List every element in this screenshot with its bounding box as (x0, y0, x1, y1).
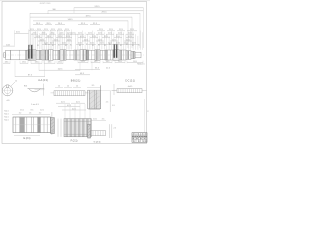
svg-text:18.5: 18.5 (106, 61, 110, 63)
top page edge shading (0, 0, 150, 1)
svg-text:12: 12 (147, 111, 149, 113)
svg-text:22.5: 22.5 (100, 43, 104, 45)
svg-text:22.5: 22.5 (54, 39, 58, 41)
shaft relief groove pairs (26, 50, 134, 61)
svg-text:8.5: 8.5 (92, 85, 95, 87)
title block (132, 133, 147, 143)
svg-text:22.5: 22.5 (116, 36, 120, 38)
svg-text:18.5: 18.5 (5, 62, 9, 64)
shaft centerline (3, 54, 145, 56)
svg-text:A-A (2:1): A-A (2:1) (38, 79, 48, 82)
svg-text:18.5: 18.5 (22, 62, 26, 64)
svg-text:22.5: 22.5 (119, 29, 123, 31)
step detail G (88, 118, 116, 143)
svg-text:22.5: 22.5 (30, 29, 34, 31)
svg-text:R2: R2 (86, 44, 88, 46)
keyway depth detail (24, 79, 48, 96)
svg-text:18.5: 18.5 (58, 62, 62, 64)
svg-text:B-B (2:1): B-B (2:1) (71, 79, 81, 82)
svg-text:22.5: 22.5 (126, 39, 130, 41)
svg-text:22.5: 22.5 (67, 39, 71, 41)
svg-text:146.5: 146.5 (67, 19, 73, 21)
sheet frame (2, 2, 147, 144)
svg-text:M24x1.5: M24x1.5 (137, 64, 144, 66)
svg-text:22.5: 22.5 (36, 36, 40, 38)
svg-text:22.5: 22.5 (90, 43, 94, 45)
svg-text:6.5: 6.5 (112, 105, 115, 107)
svg-text:22.5: 22.5 (51, 33, 55, 35)
svg-text:R2: R2 (138, 44, 140, 46)
svg-text:22.5: 22.5 (37, 29, 41, 31)
svg-text:22.5: 22.5 (71, 33, 75, 35)
svg-text:42.5: 42.5 (61, 102, 65, 104)
svg-text:18.5: 18.5 (118, 61, 122, 63)
svg-text:22.5: 22.5 (40, 39, 44, 41)
top-left dimensions (3, 30, 29, 47)
svg-text:22.5: 22.5 (104, 36, 108, 38)
svg-text:22.5: 22.5 (50, 43, 54, 45)
svg-text:o55: o55 (7, 100, 10, 102)
svg-text:Ra1.6: Ra1.6 (4, 120, 9, 122)
svg-text:187.5: 187.5 (85, 15, 91, 17)
svg-text:8.5: 8.5 (31, 109, 34, 111)
svg-text:22.5: 22.5 (98, 33, 102, 35)
svg-text:22.5: 22.5 (80, 36, 84, 38)
extension line forest and mid dimensions (29, 29, 143, 50)
svg-text:3.2: 3.2 (19, 113, 22, 115)
svg-text:12: 12 (76, 86, 78, 88)
svg-text:22.5: 22.5 (118, 33, 122, 35)
svg-text:R2: R2 (37, 45, 39, 47)
svg-text:22.5: 22.5 (88, 33, 92, 35)
svg-text:R2: R2 (65, 45, 67, 47)
svg-text:12: 12 (67, 86, 69, 88)
svg-text:40.5: 40.5 (16, 32, 20, 34)
svg-text:22.5: 22.5 (132, 43, 136, 45)
svg-text:1.6: 1.6 (29, 113, 32, 115)
svg-text:3.5: 3.5 (102, 118, 105, 120)
svg-text:281.5: 281.5 (101, 12, 107, 14)
spline section detail F (51, 102, 92, 143)
svg-text:GOST 2.109: GOST 2.109 (40, 3, 51, 5)
keyway local section left (28, 45, 33, 59)
svg-text:12.5: 12.5 (40, 109, 44, 111)
svg-text:22.5: 22.5 (33, 33, 37, 35)
svg-text:42.5: 42.5 (76, 102, 80, 104)
svg-text:E (2:1): E (2:1) (24, 138, 31, 140)
svg-text:Ra1.6: Ra1.6 (4, 114, 9, 116)
svg-text:18.5: 18.5 (94, 61, 98, 63)
svg-text:18.5: 18.5 (35, 62, 39, 64)
svg-text:22.5: 22.5 (44, 29, 48, 31)
section C-C strip (112, 80, 147, 96)
svg-text:22.5: 22.5 (124, 43, 128, 45)
svg-text:22.5: 22.5 (62, 43, 66, 45)
svg-text:22.5: 22.5 (130, 29, 134, 31)
svg-text:22.5: 22.5 (109, 29, 113, 31)
svg-text:22.5: 22.5 (58, 29, 62, 31)
svg-text:22.5: 22.5 (51, 29, 55, 31)
svg-text:12: 12 (58, 86, 60, 88)
svg-text:22.5: 22.5 (108, 33, 112, 35)
shaft main view (4, 50, 142, 61)
svg-text:22.5: 22.5 (128, 33, 132, 35)
svg-text:22.5: 22.5 (65, 29, 69, 31)
svg-text:22.5: 22.5 (60, 33, 64, 35)
svg-text:22.5: 22.5 (108, 43, 112, 45)
keyway local section right (113, 44, 117, 58)
svg-text:245.5: 245.5 (94, 6, 100, 8)
svg-text:22.5: 22.5 (92, 36, 96, 38)
svg-text:22.5: 22.5 (66, 36, 70, 38)
svg-text:G (4:1): G (4:1) (94, 142, 101, 144)
svg-text:22.5: 22.5 (98, 39, 102, 41)
svg-text:2.5: 2.5 (106, 102, 109, 104)
svg-text:22.5: 22.5 (42, 33, 46, 35)
svg-text:R16: R16 (24, 85, 27, 87)
chamfer labels above shaft (37, 44, 140, 47)
svg-text:R2: R2 (79, 45, 81, 47)
svg-text:F (2:1): F (2:1) (71, 141, 78, 143)
svg-text:42.5: 42.5 (67, 105, 71, 107)
section B-B spline strip (51, 79, 89, 95)
svg-text:22.5: 22.5 (116, 43, 120, 45)
svg-text:22.5: 22.5 (58, 36, 62, 38)
svg-text:4x8.5: 4x8.5 (128, 86, 132, 88)
svg-text:22.5: 22.5 (128, 36, 132, 38)
svg-text:22.5: 22.5 (84, 39, 88, 41)
enlarged journal detail E (4, 103, 52, 140)
svg-text:22.5: 22.5 (78, 33, 82, 35)
svg-text:22.5: 22.5 (78, 43, 82, 45)
frame segment above title block (143, 99, 145, 133)
svg-text:Ra1.6: Ra1.6 (4, 117, 9, 119)
svg-text:18.5: 18.5 (133, 61, 137, 63)
svg-text:22.5: 22.5 (47, 36, 51, 38)
svg-text:22.5: 22.5 (112, 39, 116, 41)
svg-text:C-C (2:1): C-C (2:1) (125, 80, 135, 83)
svg-text:12: 12 (15, 80, 17, 82)
lower dimension rows (3, 61, 145, 77)
groove detail D (87, 85, 116, 112)
svg-text:1 otv. 4.5: 1 otv. 4.5 (31, 103, 39, 106)
svg-text:18.5: 18.5 (81, 61, 85, 63)
svg-text:3.2: 3.2 (39, 113, 42, 115)
svg-text:18.5: 18.5 (48, 62, 52, 64)
svg-text:10.5: 10.5 (93, 118, 97, 120)
svg-text:2.5: 2.5 (114, 128, 117, 130)
upper dimension chain rows (30, 6, 143, 48)
svg-text:22.5: 22.5 (44, 43, 48, 45)
svg-text:42.5: 42.5 (72, 108, 76, 110)
svg-text:Ra1.6: Ra1.6 (4, 111, 9, 113)
section A-A circle view (2, 80, 18, 101)
svg-text:22.5: 22.5 (99, 29, 103, 31)
svg-text:15.5: 15.5 (20, 109, 24, 111)
